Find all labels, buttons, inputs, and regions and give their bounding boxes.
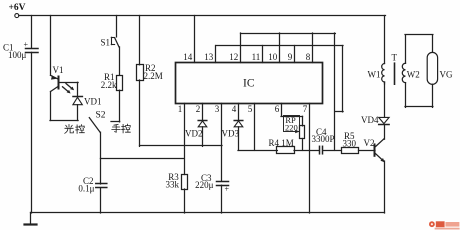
wire S2 node to pin1 line bbox=[101, 158, 185, 160]
wire C1 branch top bbox=[31, 16, 33, 49]
wire node B VD3 to R4 bbox=[238, 150, 277, 152]
diode VD4 bbox=[379, 117, 389, 123]
op-amp IC U1 bbox=[176, 63, 323, 104]
svg-text:T: T bbox=[392, 53, 398, 63]
pin 11 bbox=[262, 46, 264, 63]
svg-text:4: 4 bbox=[232, 104, 237, 114]
svg-text:6: 6 bbox=[275, 104, 280, 114]
label shou-kong manual control bbox=[112, 124, 131, 133]
svg-text:220μ: 220μ bbox=[195, 180, 214, 190]
wire V1 emitter from rail bbox=[50, 16, 52, 76]
svg-text:W2: W2 bbox=[407, 70, 420, 80]
capacitor C2 bbox=[100, 159, 102, 185]
watermark logo bbox=[429, 221, 460, 229]
pin 2 bbox=[202, 103, 204, 120]
wire W1 bottom bbox=[384, 82, 386, 84]
svg-text:VD1: VD1 bbox=[84, 97, 102, 107]
pin 3 bbox=[221, 103, 223, 181]
svg-text:5: 5 bbox=[248, 104, 253, 114]
pin 14 bbox=[194, 16, 196, 63]
svg-text:7: 7 bbox=[303, 104, 308, 114]
svg-text:VD3: VD3 bbox=[222, 129, 240, 139]
pin 4 bbox=[238, 103, 240, 120]
wire S2 pole down bbox=[100, 132, 102, 158]
svg-text:VG: VG bbox=[440, 70, 453, 80]
svg-text:+: + bbox=[24, 40, 29, 49]
pin 1 bbox=[184, 103, 186, 174]
svg-text:S2: S2 bbox=[96, 111, 106, 121]
pin 5 bbox=[254, 103, 256, 150]
transformer primary W1 bbox=[382, 64, 385, 83]
svg-text:W1: W1 bbox=[368, 70, 381, 80]
capacitor C3 bbox=[217, 181, 229, 183]
transistor V2 NPN bbox=[374, 144, 376, 155]
wire light-contact node bbox=[50, 120, 78, 122]
wire pin6 to RP top bbox=[281, 116, 303, 118]
wire rail to W1 bbox=[384, 16, 386, 64]
wire upper bus pins 12-10-8 bbox=[241, 33, 336, 35]
glow tube VG bbox=[427, 52, 437, 84]
svg-text:0.1μ: 0.1μ bbox=[78, 184, 94, 194]
wire lower bus pins 13-11-9 bbox=[216, 45, 343, 47]
wire bottom ground rail bbox=[31, 212, 385, 214]
wire VD1 bottom bbox=[77, 105, 79, 121]
wire C1 branch bottom bbox=[31, 52, 33, 213]
pin 6 bbox=[281, 103, 283, 116]
pin 7 bbox=[309, 103, 311, 213]
wire R1 to manual contact bbox=[119, 90, 121, 122]
svg-text:2.2M: 2.2M bbox=[144, 71, 163, 81]
pin 8 bbox=[312, 33, 314, 63]
svg-text:3300P: 3300P bbox=[312, 134, 335, 144]
svg-text:11: 11 bbox=[252, 52, 261, 62]
svg-text:100μ: 100μ bbox=[8, 50, 27, 60]
photodiode VD1 bbox=[77, 82, 79, 97]
pin 12 bbox=[240, 33, 242, 63]
svg-text:9: 9 bbox=[288, 52, 293, 62]
svg-text:13: 13 bbox=[204, 52, 214, 62]
svg-text:R4 1M: R4 1M bbox=[269, 138, 294, 148]
wire +6V top rail bbox=[19, 15, 386, 17]
wire V1 collector down bbox=[50, 92, 52, 121]
svg-text:V1: V1 bbox=[53, 65, 64, 75]
svg-text:IC: IC bbox=[243, 78, 255, 90]
ground symbol bbox=[30, 213, 32, 225]
wire R5 to V2 base bbox=[359, 150, 376, 152]
capacitor C4 bbox=[319, 146, 321, 154]
capacitor C1 bbox=[26, 48, 39, 50]
svg-text:+6V: +6V bbox=[9, 3, 26, 13]
svg-text:14: 14 bbox=[183, 52, 193, 62]
svg-text:12: 12 bbox=[229, 52, 238, 62]
svg-text:2: 2 bbox=[196, 104, 201, 114]
label guang-kong light control bbox=[65, 125, 84, 134]
transistor V1 PNP bbox=[51, 75, 59, 79]
wire R2 from rail bbox=[139, 16, 141, 65]
svg-text:+: + bbox=[225, 185, 230, 194]
svg-text:330: 330 bbox=[343, 139, 357, 149]
pin 10 bbox=[279, 33, 281, 63]
resistor R2 bbox=[137, 65, 144, 81]
wire S1 to R1 bbox=[119, 47, 121, 75]
switch S1 button bbox=[116, 16, 118, 37]
diode VD3 bbox=[234, 120, 243, 122]
wire C4 to R5 bbox=[323, 150, 342, 152]
svg-text:1: 1 bbox=[178, 104, 183, 114]
svg-text:3: 3 bbox=[215, 104, 220, 114]
potentiometer RP bbox=[284, 116, 300, 132]
wire R4 to C4 bbox=[294, 150, 319, 152]
svg-text:V2: V2 bbox=[364, 138, 375, 148]
pin 13 bbox=[215, 46, 217, 63]
pin 9 bbox=[294, 46, 296, 63]
diode VD2 bbox=[198, 120, 207, 122]
wire V1 base to VD1 bbox=[59, 82, 79, 84]
resistor R5 bbox=[342, 148, 359, 154]
svg-text:10: 10 bbox=[268, 52, 278, 62]
wire W2 bottom to VG bottom bbox=[405, 83, 407, 108]
wire R2 to node A bbox=[139, 80, 141, 146]
switch S2 bbox=[89, 118, 100, 133]
+6V supply terminal bbox=[15, 14, 19, 18]
svg-text:VD4: VD4 bbox=[361, 115, 379, 125]
wire V2 emitter to rail bbox=[384, 161, 386, 213]
transformer core T bbox=[394, 63, 396, 84]
wire V2 collector up bbox=[384, 125, 386, 139]
svg-text:VD2: VD2 bbox=[185, 129, 203, 139]
svg-text:S1: S1 bbox=[100, 38, 110, 48]
resistor R4 bbox=[277, 147, 295, 154]
resistor R3 bbox=[182, 175, 188, 190]
svg-text:8: 8 bbox=[306, 52, 311, 62]
wire W2 top to VG top bbox=[405, 35, 407, 63]
transformer secondary W2 bbox=[402, 63, 405, 82]
svg-text:2.2k: 2.2k bbox=[101, 80, 117, 90]
svg-text:33k: 33k bbox=[166, 180, 180, 190]
resistor R1 bbox=[117, 76, 123, 91]
